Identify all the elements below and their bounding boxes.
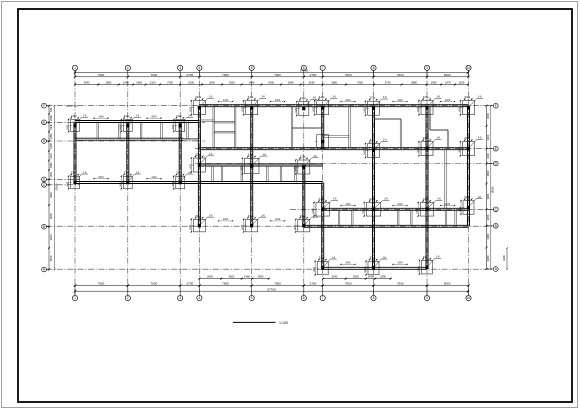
beam along axis E' — [199, 148, 468, 150]
column pad axis10/C'' — [459, 195, 483, 215]
svg-text:540: 540 — [49, 107, 53, 112]
svg-text:16350: 16350 — [491, 186, 495, 194]
middle strip divider 2 — [221, 166, 223, 182]
opening dim F bay8 — [392, 99, 408, 102]
toilet wall h3 — [214, 131, 235, 133]
axis bubble E left — [42, 120, 47, 125]
svg-text:3080: 3080 — [486, 255, 490, 261]
svg-text:7600: 7600 — [274, 282, 281, 286]
svg-text:3100: 3100 — [49, 255, 53, 261]
svg-text:3300: 3300 — [486, 134, 490, 140]
svg-text:F: F — [43, 104, 45, 108]
left strip divider 4 — [161, 122, 163, 140]
svg-text:1440: 1440 — [151, 176, 157, 179]
axis bubble 1 bottom — [72, 295, 77, 300]
beam along axis D' — [199, 164, 322, 166]
left dimension line — [48, 105, 53, 271]
axis bubble 8 bottom — [371, 295, 376, 300]
column pad axis4/B — [189, 213, 214, 232]
svg-text:J-6: J-6 — [262, 152, 266, 156]
axis bubble E right — [493, 146, 498, 151]
axis 9 top stem — [426, 70, 428, 76]
svg-text:7600: 7600 — [274, 73, 281, 77]
svg-text:1440: 1440 — [123, 81, 129, 85]
axis F right stem — [487, 105, 494, 107]
svg-text:5: 5 — [251, 66, 253, 70]
grid axis E' centerline (right) — [195, 148, 493, 150]
column pad axis8/C'' — [362, 197, 389, 217]
svg-text:1400: 1400 — [416, 208, 419, 214]
svg-text:J-6: J-6 — [83, 114, 87, 118]
axis 6 bottom stem — [303, 286, 305, 296]
svg-text:5: 5 — [251, 296, 253, 300]
opening dim C'' bay7 — [340, 203, 356, 206]
svg-text:6000: 6000 — [444, 282, 451, 286]
svg-text:2040: 2040 — [209, 81, 215, 85]
axis bubble 5 bottom — [249, 295, 254, 300]
svg-text:3000: 3000 — [229, 81, 235, 85]
svg-text:3400: 3400 — [258, 275, 264, 279]
svg-text:1400: 1400 — [417, 106, 420, 112]
svg-text:23500: 23500 — [54, 183, 58, 191]
svg-text:J-6: J-6 — [436, 95, 440, 99]
beam on axis 4 — [198, 106, 200, 227]
axis bubble A left — [42, 267, 47, 272]
svg-text:2700: 2700 — [310, 73, 317, 77]
svg-text:1630: 1630 — [459, 81, 465, 85]
toilet wall v1 — [213, 106, 215, 149]
svg-text:3000: 3000 — [229, 275, 235, 279]
svg-text:JZL-1 JL-3: JZL-1 JL-3 — [66, 105, 79, 108]
svg-text:1400: 1400 — [240, 165, 243, 171]
beam on axis 7 upper — [322, 106, 324, 149]
svg-text:J-6: J-6 — [188, 170, 192, 174]
axis 5 top stem — [251, 70, 253, 76]
grid axis A centerline — [46, 268, 493, 270]
column pad axis1/E — [67, 114, 88, 133]
grid axis F centerline — [46, 105, 493, 107]
column pad axis7 mid — [315, 134, 329, 149]
svg-text:J-6: J-6 — [312, 96, 316, 100]
opening dim A bay8 — [392, 262, 408, 265]
svg-text:57700: 57700 — [300, 68, 309, 72]
middle strip divider 5 — [280, 166, 282, 182]
svg-text:1400: 1400 — [189, 164, 192, 170]
room wall h at 130 — [430, 129, 448, 131]
axis bubble 4 top — [197, 65, 202, 70]
svg-text:1: 1 — [74, 296, 76, 300]
svg-text:4: 4 — [199, 66, 201, 70]
column pad axis7/A — [313, 255, 337, 275]
grid axis 5 centerline — [251, 70, 253, 295]
axis C right stem — [487, 208, 494, 210]
svg-text:1400: 1400 — [418, 266, 421, 272]
left total dimension line — [54, 105, 59, 271]
beam on axis 5 — [251, 106, 253, 227]
svg-text:J-6: J-6 — [382, 255, 386, 259]
room wall h (axis8 stub) — [374, 118, 402, 120]
opening dim E bay1 — [93, 116, 109, 119]
svg-text:2100: 2100 — [486, 153, 490, 159]
svg-text:2040: 2040 — [151, 116, 157, 119]
svg-text:1400: 1400 — [172, 124, 175, 130]
opening dim C'' bay9 — [440, 203, 456, 206]
opening dim C'' bay8 — [392, 203, 408, 206]
left strip divider 2 — [119, 122, 121, 140]
column pad axis10/F — [459, 95, 484, 116]
opening dim B bay4 — [218, 218, 234, 221]
left strip divider 5 — [187, 122, 189, 140]
svg-text:1400: 1400 — [364, 107, 367, 113]
svg-text:8: 8 — [373, 66, 375, 70]
beam along axis B' (strip bottom right) — [304, 225, 469, 227]
svg-text:8: 8 — [373, 296, 375, 300]
middle strip divider 3 — [241, 166, 243, 182]
svg-text:3100: 3100 — [188, 81, 194, 85]
column pad axis4/F — [189, 95, 214, 116]
opening dim C bay1 — [93, 176, 109, 179]
svg-text:J-6: J-6 — [83, 170, 87, 174]
wall at y136 — [323, 136, 350, 138]
svg-text:1400: 1400 — [242, 106, 245, 112]
room wall v at 427 upper — [429, 106, 431, 130]
axis 10 bottom stem — [468, 286, 470, 296]
axis 7 top stem — [322, 70, 324, 76]
right strip divider 3 — [397, 209, 399, 226]
svg-text:7600: 7600 — [98, 282, 105, 286]
svg-text:1400: 1400 — [313, 106, 316, 112]
toilet wall v2 — [234, 106, 236, 149]
svg-text:9: 9 — [426, 296, 428, 300]
axis bubble 3 bottom — [178, 295, 183, 300]
axis 1 bottom stem — [74, 286, 76, 296]
svg-text:9: 9 — [426, 66, 428, 70]
opening dim F bay9 — [440, 99, 456, 102]
svg-text:2350: 2350 — [486, 214, 490, 220]
svg-text:2040: 2040 — [207, 275, 213, 279]
bottom total dimension line — [74, 287, 469, 292]
axis 3 top stem — [179, 70, 181, 76]
svg-text:J-6: J-6 — [436, 254, 440, 258]
svg-text:J-6: J-6 — [313, 213, 317, 217]
svg-text:E: E — [495, 147, 497, 151]
svg-text:7600: 7600 — [397, 73, 404, 77]
grid axis 9 centerline — [426, 70, 428, 295]
column pad axis6/D' — [294, 154, 319, 175]
toilet wall h2 — [214, 121, 235, 123]
grid axis 7 centerline — [322, 70, 324, 295]
axis 4 top stem — [198, 70, 200, 76]
svg-text:1400: 1400 — [312, 208, 315, 214]
svg-text:2040: 2040 — [98, 176, 104, 179]
svg-text:J-6: J-6 — [332, 255, 336, 259]
grid axis C' stub — [46, 184, 80, 186]
svg-text:J-6: J-6 — [209, 152, 213, 156]
axis bubble 6 bottom — [301, 295, 306, 300]
grid axis 6 centerline — [303, 70, 305, 295]
svg-text:J-6: J-6 — [188, 114, 192, 118]
svg-text:1400: 1400 — [242, 224, 245, 230]
svg-text:J-6: J-6 — [136, 170, 140, 174]
beam along axis E (left wing top) — [75, 121, 199, 123]
svg-text:J-6: J-6 — [313, 154, 317, 158]
svg-text:B: B — [495, 224, 497, 228]
svg-text:7: 7 — [322, 296, 324, 300]
axis bubble C left — [42, 177, 47, 182]
hall wall v1 — [291, 106, 293, 149]
axis 3 bottom stem — [179, 286, 181, 296]
svg-text:1850: 1850 — [106, 81, 112, 85]
strip bottom extension — [183, 138, 199, 140]
svg-text:3730: 3730 — [385, 81, 391, 85]
column pad axis9/F — [417, 95, 442, 116]
svg-text:7600: 7600 — [98, 73, 105, 77]
room wall v at 401 — [400, 119, 402, 149]
svg-text:J-6: J-6 — [383, 138, 387, 142]
column pad axis6/B — [294, 213, 319, 232]
svg-text:1400: 1400 — [294, 166, 297, 172]
svg-text:1360: 1360 — [49, 133, 53, 139]
svg-text:1400: 1400 — [67, 181, 70, 187]
axis E right stem — [487, 148, 494, 150]
svg-text:1400: 1400 — [364, 267, 367, 273]
bottom sub-dimension group right — [322, 275, 392, 280]
middle strip divider 6 — [295, 166, 297, 182]
axis bubble 10 top — [466, 65, 471, 70]
svg-text:2040: 2040 — [345, 262, 351, 265]
opening dim F bay7 — [340, 99, 356, 102]
svg-text:7600: 7600 — [150, 282, 157, 286]
beam along axis C — [75, 182, 323, 184]
grid axis 1 centerline — [74, 70, 76, 295]
svg-text:1400: 1400 — [172, 181, 175, 187]
svg-text:2400: 2400 — [223, 218, 229, 221]
axis bubble 5 top — [249, 65, 254, 70]
opening dim C bay2 — [146, 176, 162, 179]
bottom sub-dimension group left — [198, 275, 269, 280]
opening dim F bay5 — [270, 99, 286, 102]
svg-text:1400: 1400 — [119, 124, 122, 130]
svg-text:7600: 7600 — [150, 73, 157, 77]
svg-text:1400: 1400 — [295, 107, 298, 113]
right strip divider 2 — [352, 209, 354, 226]
svg-text:3040: 3040 — [84, 81, 90, 85]
axis D right stem — [487, 163, 494, 165]
svg-text:3000: 3000 — [353, 275, 359, 279]
svg-text:6050: 6050 — [49, 212, 53, 218]
svg-text:3750: 3750 — [357, 81, 363, 85]
beam on axis 8 — [373, 106, 375, 269]
right strip divider 6 — [455, 209, 457, 226]
column pad axis9/C'' — [416, 197, 442, 217]
svg-text:2900: 2900 — [486, 113, 490, 119]
svg-text:1400: 1400 — [459, 147, 462, 153]
top dimension line (axis bays) — [74, 73, 470, 78]
svg-text:2920: 2920 — [49, 191, 53, 197]
right strip divider 4 — [411, 209, 413, 226]
svg-text:1400: 1400 — [459, 206, 462, 212]
column pad axis3/C — [172, 170, 193, 189]
svg-text:2400: 2400 — [49, 115, 53, 121]
svg-text:57700: 57700 — [267, 287, 276, 291]
column pad axis10/E' — [459, 136, 484, 157]
axis 4 bottom stem — [198, 286, 200, 296]
svg-text:2700: 2700 — [167, 81, 173, 85]
column pad axis2/E — [119, 114, 140, 133]
right strip divider 5 — [445, 209, 447, 226]
svg-text:3: 3 — [179, 66, 181, 70]
svg-text:1440: 1440 — [223, 99, 229, 102]
svg-text:B: B — [43, 225, 45, 229]
svg-text:J-6: J-6 — [383, 95, 387, 99]
axis bubble C left — [42, 182, 47, 187]
svg-text:6: 6 — [303, 296, 305, 300]
svg-text:F: F — [495, 104, 497, 108]
axis 7 bottom stem — [322, 286, 324, 296]
axis bubble B right — [493, 223, 498, 228]
axis bubble 2 bottom — [125, 295, 130, 300]
beam along axis F (top, right wing) — [199, 105, 468, 107]
beam along axis D (left strip bottom) — [75, 138, 183, 140]
opening dim E bay2 — [146, 116, 162, 119]
svg-text:1440: 1440 — [397, 262, 403, 265]
beam on axis 3 — [179, 122, 181, 183]
svg-text:J-6: J-6 — [333, 197, 337, 201]
grid axis 4 centerline — [198, 70, 200, 295]
svg-text:1350: 1350 — [49, 171, 53, 177]
axis B right stem — [487, 225, 494, 227]
svg-text:1340: 1340 — [49, 123, 53, 129]
axis 1 top stem — [74, 70, 76, 76]
beam on axis 2 — [127, 122, 129, 183]
svg-text:1400: 1400 — [362, 208, 365, 214]
axis 9 bottom stem — [426, 286, 428, 296]
svg-text:1440: 1440 — [249, 81, 255, 85]
axis 5 bottom stem — [251, 286, 253, 296]
column pad axis9/A — [418, 254, 442, 274]
svg-text:J-6: J-6 — [261, 213, 265, 217]
column pad axis5/F — [242, 95, 267, 116]
svg-text:1400: 1400 — [364, 149, 367, 155]
svg-text:2400: 2400 — [275, 99, 281, 102]
opening dim A bay7 — [340, 262, 356, 265]
svg-text:7600: 7600 — [222, 73, 229, 77]
svg-text:1400: 1400 — [294, 224, 297, 230]
svg-text:2: 2 — [127, 296, 129, 300]
axis F left stem — [46, 105, 49, 107]
column pad axis4/D' — [189, 152, 214, 173]
column pad axis7/F — [313, 95, 338, 116]
beam along axis C'' — [323, 208, 469, 210]
axis 10 top stem — [468, 70, 470, 76]
right dimension line — [486, 105, 490, 270]
svg-text:2700: 2700 — [186, 282, 193, 286]
svg-text:7: 7 — [322, 66, 324, 70]
axis bubble D left — [42, 139, 47, 144]
svg-text:1440: 1440 — [397, 99, 403, 102]
hall wall v2 — [349, 106, 351, 149]
svg-text:2040: 2040 — [345, 99, 351, 102]
svg-text:2: 2 — [127, 66, 129, 70]
svg-text:7600: 7600 — [397, 282, 404, 286]
axis A left stem — [46, 269, 49, 271]
svg-text:3080: 3080 — [486, 233, 490, 239]
svg-text:J-6: J-6 — [437, 197, 441, 201]
grid axis C'' centerline (right) — [290, 208, 493, 210]
svg-text:10: 10 — [467, 296, 471, 300]
svg-text:1: 1 — [74, 66, 76, 70]
grid axis C centerline (left) — [46, 178, 80, 180]
svg-text:1370: 1370 — [49, 152, 53, 158]
grid axis 2 centerline — [127, 70, 129, 295]
grid axis B centerline — [46, 225, 493, 227]
grid axis 3 centerline — [179, 70, 181, 295]
axis bubble 8 top — [371, 65, 376, 70]
toilet wall h1 — [199, 120, 213, 122]
right 4200 dim — [502, 247, 508, 270]
grid axis D centerline (left) — [46, 140, 205, 142]
middle strip divider 1 — [212, 166, 214, 182]
svg-text:7600: 7600 — [345, 282, 352, 286]
svg-text:2040: 2040 — [332, 275, 338, 279]
svg-text:1440: 1440 — [275, 218, 281, 221]
svg-text:3660: 3660 — [486, 193, 490, 199]
bottom dimension line (axis bays) — [74, 282, 470, 287]
axis 6 top stem — [303, 70, 305, 76]
grid axis 8 centerline — [373, 70, 375, 295]
svg-text:1470: 1470 — [445, 81, 451, 85]
axis bubble F left — [42, 103, 47, 108]
axis bubble F right — [493, 103, 498, 108]
beam on axis 6 lower — [303, 165, 305, 227]
axis 8 top stem — [373, 70, 375, 76]
svg-text:3100: 3100 — [49, 234, 53, 240]
svg-text:1400: 1400 — [189, 224, 192, 230]
svg-text:2100: 2100 — [150, 81, 156, 85]
axis bubble 10 bottom — [466, 295, 471, 300]
column pad axis8/A — [364, 255, 388, 275]
scale bar line — [233, 321, 276, 323]
svg-text:1440: 1440 — [98, 116, 104, 119]
svg-text:7600: 7600 — [222, 282, 229, 286]
right strip divider 1 — [338, 209, 340, 226]
svg-text:E: E — [43, 120, 45, 124]
svg-text:1400: 1400 — [313, 267, 316, 273]
column pad axis5/D' — [240, 152, 267, 174]
svg-text:2700: 2700 — [310, 282, 317, 286]
svg-text:J-6: J-6 — [332, 95, 336, 99]
svg-text:1400: 1400 — [417, 147, 420, 153]
beam on axis 1 — [74, 122, 76, 183]
room wall v at 448 — [447, 130, 449, 149]
axis bubble 1 top — [72, 65, 77, 70]
axis bubble B left — [42, 224, 47, 229]
grid axis E centerline (left) — [46, 121, 205, 123]
svg-text:1440: 1440 — [244, 275, 250, 279]
svg-text:1440: 1440 — [445, 203, 451, 206]
top dimension line (sub dims) — [74, 81, 469, 86]
svg-text:1950: 1950 — [431, 81, 437, 85]
axis E left stem — [46, 121, 49, 123]
svg-text:1440: 1440 — [368, 275, 374, 279]
beam on axis 9 — [426, 106, 428, 269]
svg-text:J-6: J-6 — [478, 136, 482, 140]
svg-text:6000: 6000 — [444, 73, 451, 77]
left strip divider 3 — [140, 122, 142, 140]
svg-text:1400: 1400 — [459, 106, 462, 112]
svg-text:1:100: 1:100 — [279, 321, 288, 325]
svg-text:10: 10 — [467, 66, 471, 70]
